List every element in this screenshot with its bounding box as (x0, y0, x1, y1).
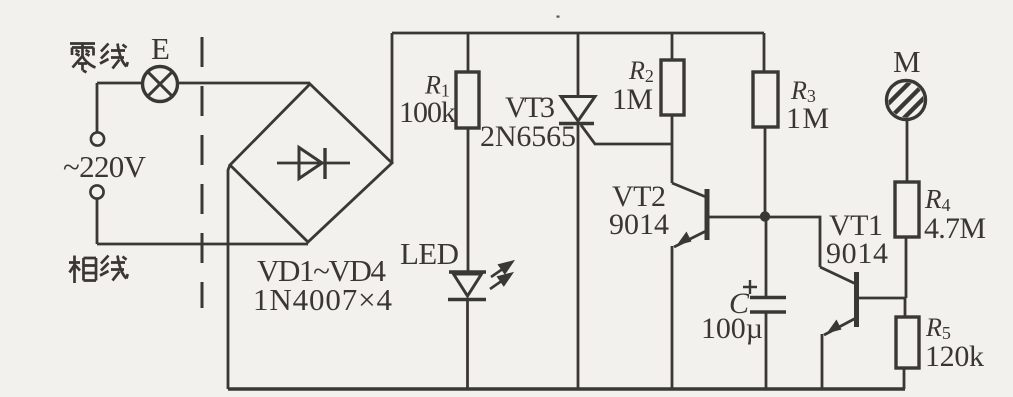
wire R4 to collector node (905, 237, 908, 298)
svg-text:1M: 1M (786, 102, 829, 135)
thyristor VT3 (559, 97, 595, 124)
resistor R4 (895, 182, 919, 237)
wire motor to R4 (906, 120, 909, 182)
wire VT3 cathode to bus (577, 123, 580, 389)
capacitor C 100u (750, 298, 786, 313)
svg-text:~220V: ~220V (63, 149, 147, 184)
svg-text:LED: LED (400, 236, 459, 271)
wire R1 to LED (467, 128, 470, 272)
label 相线 (69, 256, 128, 284)
svg-text:1N4007×4: 1N4007×4 (253, 282, 393, 317)
node junction dot (760, 211, 770, 221)
resistor R3 (753, 72, 778, 127)
wire bus to R2 (671, 33, 674, 60)
terminal upper (91, 132, 104, 145)
svg-text:2N6565: 2N6565 (480, 120, 576, 153)
wire bridge right corner to top bus (391, 33, 394, 163)
svg-text:100µ: 100µ (701, 312, 763, 345)
wire neutral to lamp (97, 82, 142, 85)
wire node to VT1 base (765, 217, 820, 267)
resistor R5 (896, 317, 919, 368)
wire bus to R1 (467, 33, 470, 72)
wire R5 to bus (903, 368, 906, 389)
svg-text:1M: 1M (612, 83, 653, 116)
lamp E (143, 67, 178, 102)
wire phase to bridge bottom (97, 243, 308, 246)
bridge rectifier diamond VD1~VD4 (230, 84, 392, 242)
svg-text:E: E (151, 31, 170, 66)
svg-text:120k: 120k (925, 340, 984, 373)
svg-text:M: M (893, 44, 921, 79)
LED emission arrows (490, 262, 512, 289)
terminal lower (90, 185, 103, 198)
wire bus corner to R3 (763, 33, 766, 72)
wire VT1 emitter to bus (821, 334, 824, 389)
LED D1 (448, 272, 486, 300)
svg-text:9014: 9014 (609, 208, 669, 241)
wire R2 to VT2 base (671, 115, 674, 183)
wire collector node to R5 (904, 298, 907, 317)
transistor VT2 (672, 183, 761, 247)
wire VT3 gate (581, 125, 672, 144)
resistor R1 (456, 72, 479, 128)
svg-text:4.7M: 4.7M (924, 212, 986, 245)
wire lower terminal down (96, 199, 99, 244)
wire VT2 emitter to bus (671, 246, 674, 389)
label 零线 (70, 44, 128, 73)
wire LED to bus (466, 299, 469, 389)
wire node to capacitor (765, 216, 768, 297)
transistor VT1 (820, 267, 906, 335)
wire R3 to node (764, 127, 767, 216)
wire lamp to bridge top (178, 82, 310, 85)
wire capacitor to bus (765, 312, 768, 389)
wire left drop to terminal (96, 83, 99, 133)
wire bottom bus (228, 387, 905, 390)
dashed separator line (201, 37, 204, 308)
wire bridge left corner to bottom bus (228, 165, 230, 389)
svg-text:9014: 9014 (826, 237, 888, 270)
bridge diode symbol (277, 148, 350, 180)
ink speck (557, 16, 560, 18)
motor M (884, 78, 932, 134)
resistor R2 (661, 60, 684, 115)
wire bus to VT3 (577, 33, 580, 97)
svg-text:100k: 100k (399, 96, 456, 129)
wire top bus (392, 32, 764, 35)
capacitor plus sign (743, 280, 757, 294)
